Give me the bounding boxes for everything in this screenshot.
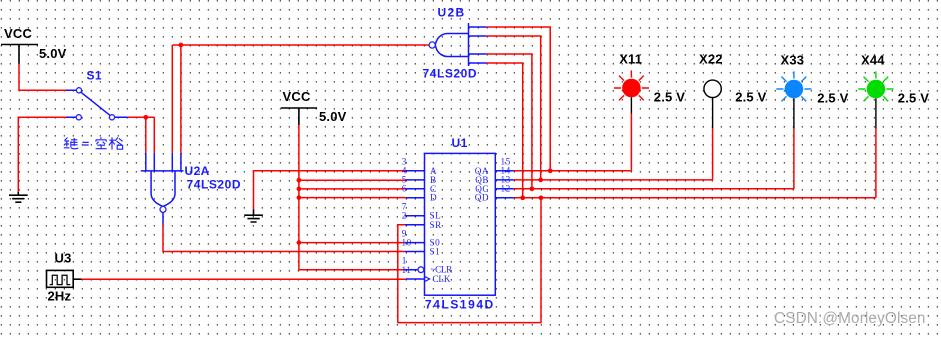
svg-text:74LS20D: 74LS20D [187,177,242,191]
svg-text:QD: QD [475,193,489,203]
svg-text:X33: X33 [781,52,805,67]
svg-text:U3: U3 [55,251,72,266]
gate U2A 74LS20 NAND [141,153,184,225]
junction switch pole node [143,115,148,120]
svg-text:2Hz: 2Hz [48,289,72,304]
junction node QD (SR feedback tap) [539,195,544,200]
svg-text:5.0V: 5.0V [319,109,347,124]
svg-text:2.5 V: 2.5 V [817,91,848,106]
wire SR feedback from QD [398,198,541,323]
wire QA to probe X11 [514,114,632,171]
pin number labels U1 right: 15 14 13 12 [501,157,511,194]
probe X44 (lit green) [858,71,893,128]
svg-text:2.5 V: 2.5 V [898,91,929,106]
power VCC V1 [1,26,38,64]
svg-text:74LS194D: 74LS194D [425,297,495,311]
value label key = space (CJK) [64,137,123,149]
pin name labels U1 right [475,166,489,203]
probe X33 (lit blue) [776,71,811,128]
svg-text:U2A: U2A [185,164,210,178]
wire QD to U2B pin5 [487,63,523,198]
wire U1 A to ground [254,171,407,210]
svg-text:U2B: U2B [438,6,466,20]
wire U2A output to U1 S1 [163,225,405,252]
svg-text:VCC: VCC [283,89,311,104]
svg-text:CSDN:@MorleyOlsen: CSDN:@MorleyOlsen [774,310,926,327]
wire QC to U2B pin4 [487,54,532,189]
wire VCC rail to U1 B [299,179,406,181]
svg-text:74LS20D: 74LS20D [423,67,478,81]
pin number labels U1 left: 3 4 5 6 7 2 9 10 1 11 [402,157,412,275]
svg-text:U1: U1 [452,136,468,150]
junction node QC [530,186,535,191]
junction node S0 [297,240,302,245]
svg-text:X22: X22 [699,52,723,67]
probe X11 (lit red) [614,70,649,113]
junction node QB [538,178,543,183]
wire QB to probe X22 [514,128,713,180]
wire U3 to U1 CLK [82,278,406,280]
wire QC to probe X33 [514,129,794,189]
svg-text:X44: X44 [861,52,885,67]
wire switch bottom throw to ground [18,117,66,192]
wire VCC rail to U1 C [299,188,406,190]
pin name labels U1 left [430,166,454,284]
junction node D [297,195,302,200]
svg-text:5.0V: 5.0V [39,46,67,61]
wire VCC rail to U1 D [299,197,406,199]
junction node C [297,187,302,192]
gate U2B 74LS20 NAND [429,23,487,66]
svg-text:2.5 V: 2.5 V [654,90,685,105]
junction node QA [548,168,553,173]
wire QD to probe X44 [514,129,876,198]
clock source U3 [47,270,82,287]
svg-text:10: 10 [402,237,412,247]
svg-text:VCC: VCC [4,26,32,41]
ground GND1 [9,192,28,202]
svg-text:12: 12 [501,184,511,194]
wire U2B output to U2A inputs 3,4 [172,45,429,153]
wire VCC rail to U1 CLR [299,125,404,270]
svg-text:2.5 V: 2.5 V [735,90,766,105]
wire VCC rail to U1 S0 [299,242,405,244]
switch S1 [66,88,128,120]
svg-text:D: D [430,193,437,203]
junction node QD (U2B tap) [520,195,525,200]
ground GND2 [244,210,263,223]
junction node B [297,178,302,183]
svg-text:6: 6 [402,184,407,194]
wire VCC V1 to switch top throw [19,64,66,91]
svg-text:X11: X11 [619,52,642,67]
power VCC V2 [281,89,317,125]
wire QA to U2B pin1 [487,27,551,171]
chip U1 74LS194D [404,153,514,295]
svg-text:11: 11 [402,265,412,275]
svg-text:CLK: CLK [433,274,451,284]
svg-text:S1: S1 [430,247,441,257]
svg-text:2: 2 [402,211,407,221]
svg-text:S1: S1 [87,69,102,83]
wire QB to U2B pin2 [487,36,541,180]
probe X22 (off) [704,80,721,128]
junction U2A pin4 tap [179,43,184,48]
wire switch pole to U2A inputs 1,2 [128,117,154,153]
svg-text:SR: SR [430,220,443,230]
